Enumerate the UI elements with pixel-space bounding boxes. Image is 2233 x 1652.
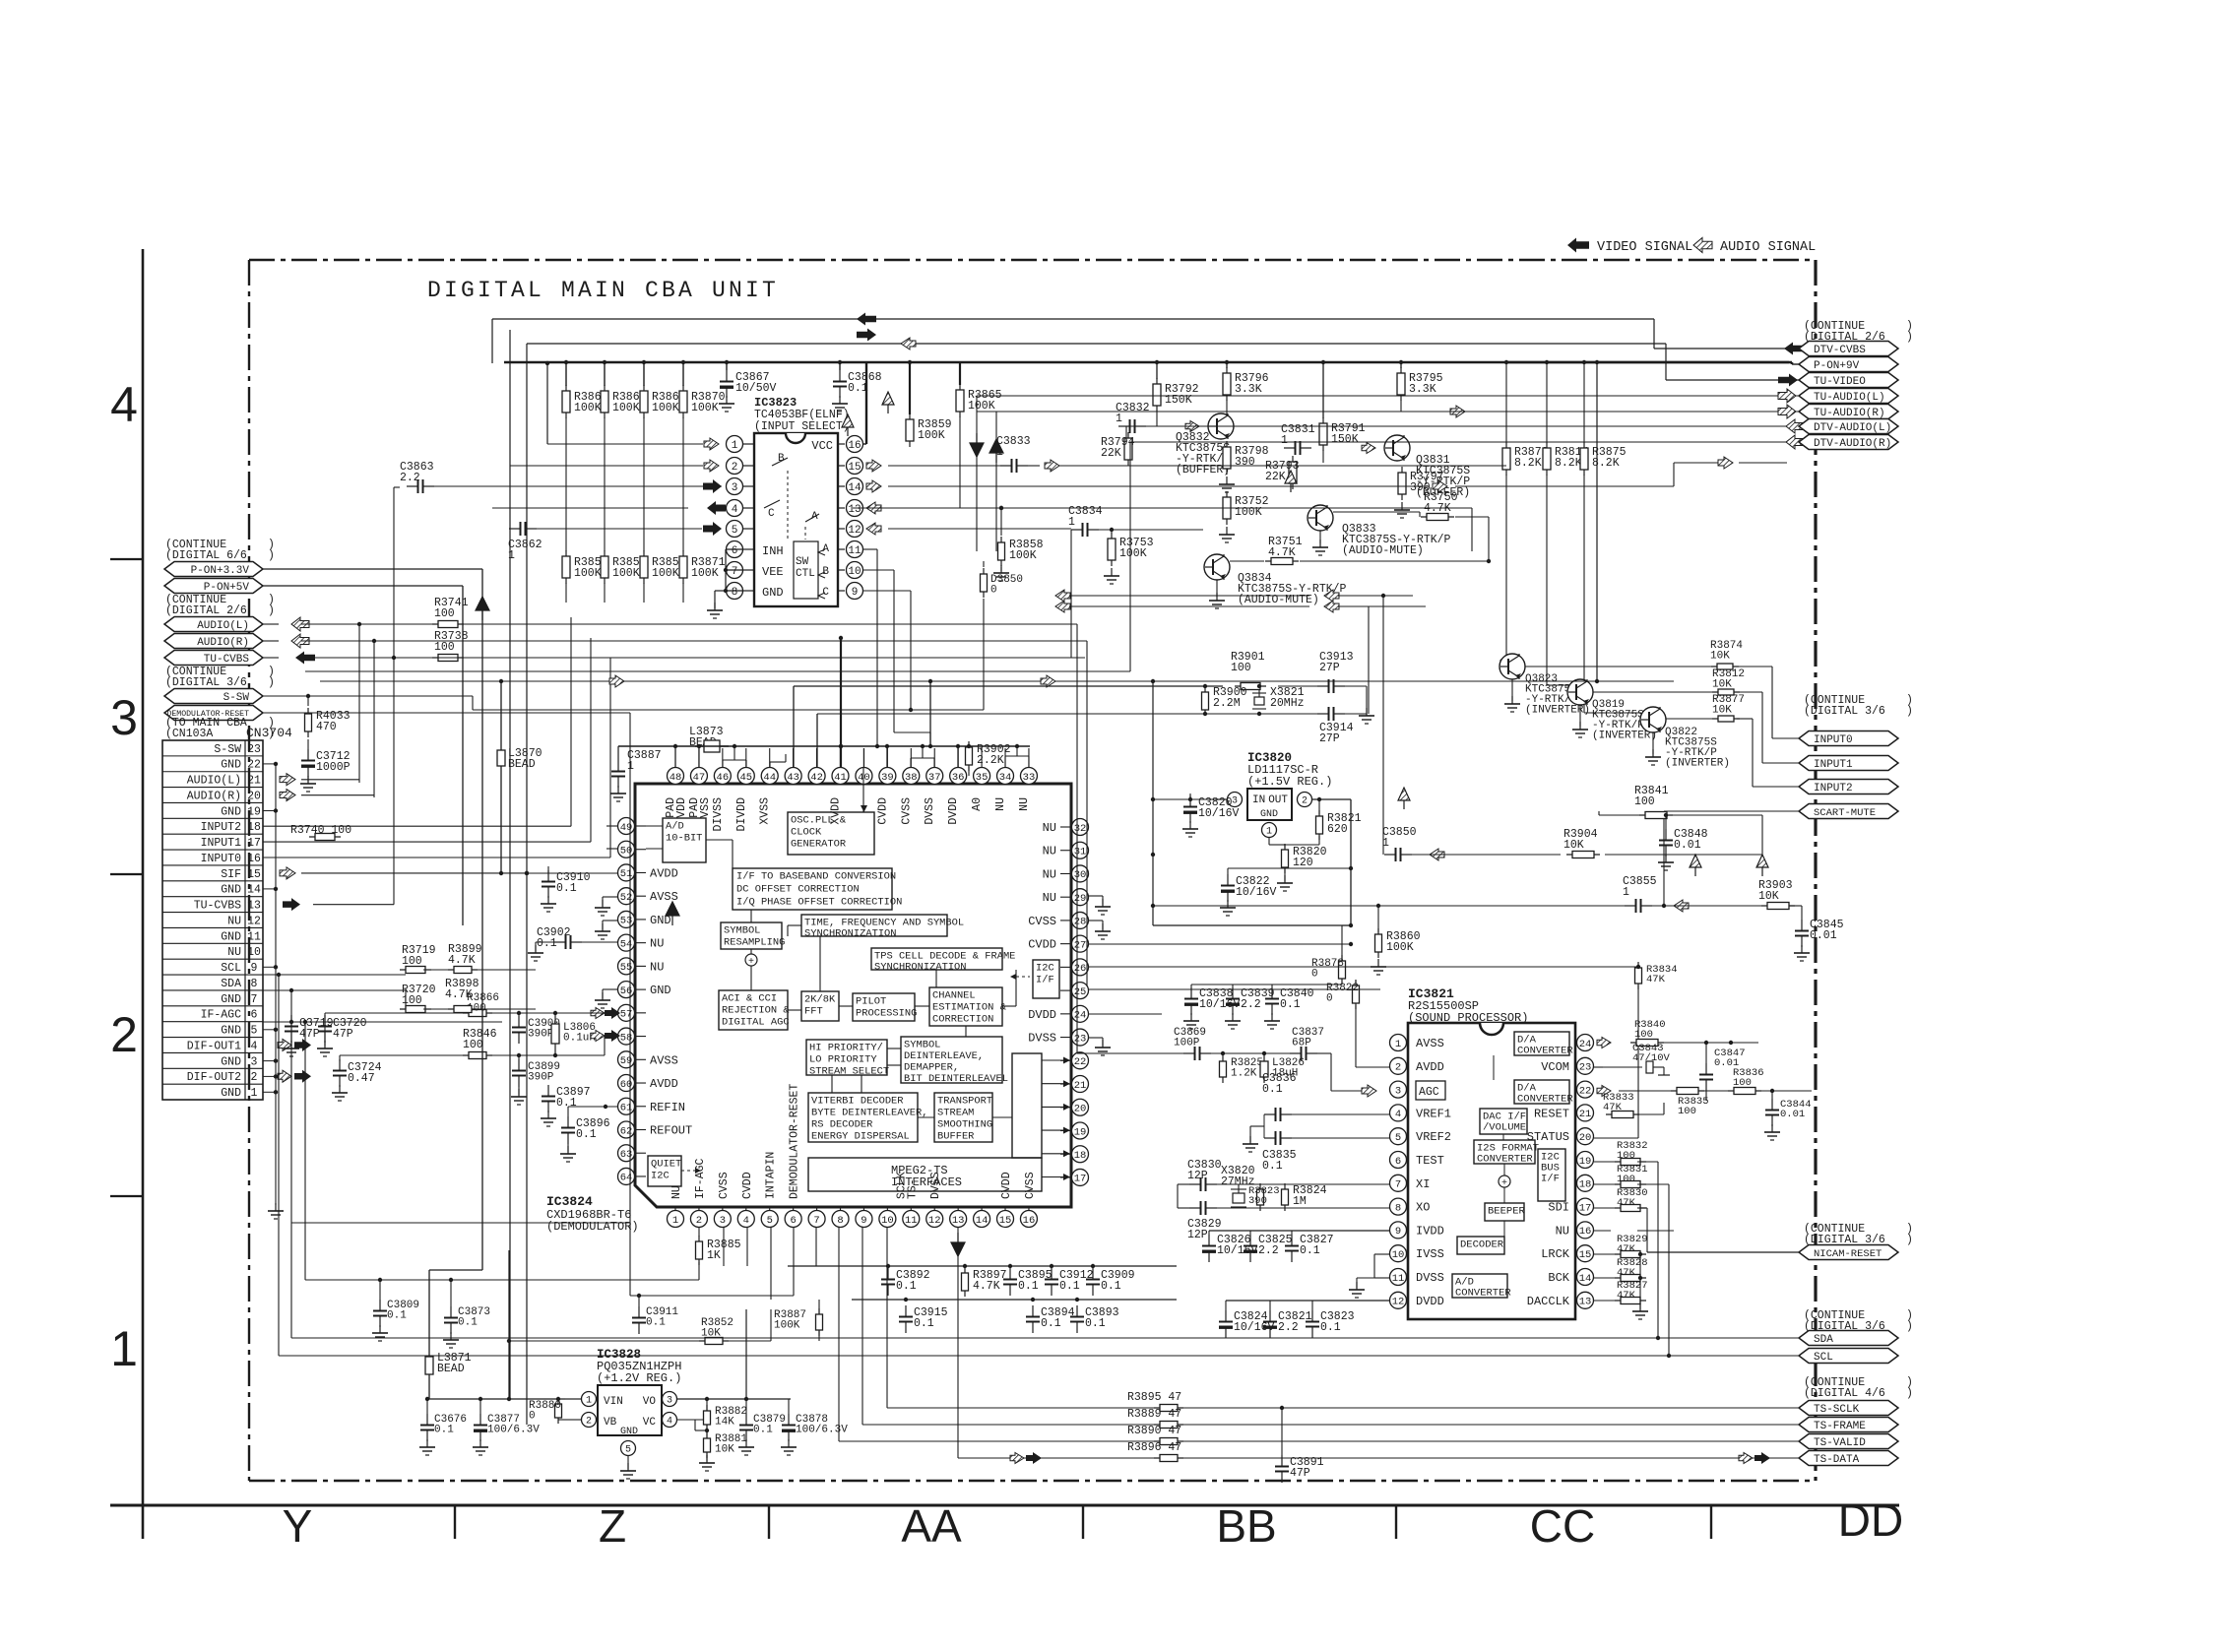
IC3824 ACI CCI block [719, 990, 788, 1030]
svg-text:STREAM SELECT: STREAM SELECT [809, 1065, 889, 1077]
arrow into IC3823 pin3 video [703, 479, 722, 493]
capacitor C3909 0.1 [1092, 1268, 1094, 1280]
svg-text:41: 41 [834, 772, 847, 784]
IC3828 pin 4 [663, 1413, 677, 1428]
svg-text:CVSS: CVSS [1024, 1172, 1037, 1199]
resistor R3822 0 [1355, 980, 1357, 1009]
ground Q3822 [1652, 732, 1654, 754]
IC3821 DAC I/F VOLUME block [1480, 1109, 1527, 1134]
power arrow near IC3823 top [842, 414, 854, 436]
IC3824 pin 21 [1072, 1076, 1089, 1093]
svg-text:/VOLUME: /VOLUME [1483, 1122, 1526, 1134]
wire pin3 4 5 drops [723, 1227, 725, 1266]
svg-text:AUDIO SIGNAL: AUDIO SIGNAL [1720, 240, 1816, 255]
capacitor C3869 100P [1183, 1052, 1195, 1054]
connector CN3704 pin 16 INPUT0 [162, 849, 263, 851]
svg-text:100K: 100K [918, 429, 945, 442]
arrow into IC3823 pin12 [866, 523, 881, 535]
svg-text:NICAM-RESET: NICAM-RESET [1814, 1248, 1882, 1260]
capacitor C3845 0.01 [1801, 920, 1803, 931]
svg-text:100: 100 [434, 607, 455, 620]
svg-text:11: 11 [247, 930, 261, 943]
svg-text:3.3K: 3.3K [1409, 383, 1436, 396]
svg-text:P-ON+3.3V: P-ON+3.3V [191, 565, 250, 577]
resistor R3829 47K [1615, 1253, 1646, 1255]
resistor R3828 47K [1615, 1277, 1646, 1279]
capacitor C3868 0.1 [839, 370, 841, 382]
resistor R3719 100 [400, 969, 431, 971]
IC3821 pin 19 [1577, 1152, 1594, 1169]
resistor R3841 100 [1639, 814, 1673, 816]
IC3824 pin 33 [1020, 768, 1037, 785]
IC3824 pin 26 [1072, 959, 1089, 976]
resistor R3830 47K [1615, 1207, 1646, 1209]
power arrow at pin54 [666, 902, 679, 925]
svg-text:13: 13 [1579, 1297, 1592, 1308]
wire STATUS run [1594, 1137, 1638, 1139]
connector CN3704 pin 13 TU-CVBS [162, 896, 263, 898]
svg-text:A: A [822, 543, 829, 555]
svg-text:PILOT: PILOT [856, 995, 886, 1007]
capacitor C3676 0.1 [426, 1414, 428, 1426]
svg-text:DTV-AUDIO(L): DTV-AUDIO(L) [1814, 422, 1891, 434]
svg-text:10K: 10K [1712, 679, 1732, 691]
svg-text:TRANSPORT: TRANSPORT [937, 1095, 992, 1107]
svg-text:VCOM: VCOM [1541, 1060, 1569, 1074]
svg-text:GND: GND [221, 1087, 241, 1100]
svg-text:): ) [1906, 1387, 1913, 1400]
svg-text:30: 30 [1074, 869, 1087, 881]
svg-text:27: 27 [1074, 939, 1087, 951]
arrow out IC3823 pin4 video [707, 501, 726, 515]
svg-text:(DIGITAL 4/6: (DIGITAL 4/6 [1804, 1387, 1885, 1400]
svg-text:13: 13 [848, 504, 861, 516]
IC3824 pin 7 [808, 1211, 825, 1228]
svg-text:3: 3 [1232, 796, 1238, 807]
svg-text:14K: 14K [715, 1417, 734, 1429]
svg-text:8.2K: 8.2K [1555, 457, 1582, 470]
IC3824 pin 45 [737, 768, 754, 785]
svg-text:3: 3 [667, 1396, 672, 1407]
svg-text:14: 14 [848, 482, 861, 494]
svg-text:13: 13 [247, 900, 261, 913]
wire S-SW run [263, 695, 473, 697]
svg-text:100/6.3V: 100/6.3V [487, 1425, 540, 1436]
connector CN3704 pin 20 AUDIO(R) [162, 787, 263, 789]
svg-text:0.1: 0.1 [537, 937, 557, 950]
svg-text:PROCESSING: PROCESSING [856, 1007, 917, 1019]
IC3820 body [1247, 789, 1292, 820]
IC3824 pin 1 [668, 1211, 684, 1228]
svg-text:100: 100 [1634, 795, 1655, 808]
IC3823 pin 8 [742, 590, 754, 592]
svg-text:1K: 1K [707, 1249, 721, 1262]
svg-text:P-ON+9V: P-ON+9V [1814, 360, 1860, 372]
svg-text:47P: 47P [333, 1028, 353, 1041]
resistor R3840 100 [1630, 1042, 1664, 1044]
svg-text:AVDD: AVDD [650, 866, 678, 880]
svg-text:(DIGITAL 3/6: (DIGITAL 3/6 [165, 676, 247, 689]
resistor R3880 0 [557, 1398, 559, 1424]
svg-text:1: 1 [110, 1321, 138, 1376]
wire top feeder 2 [509, 330, 511, 1399]
svg-text:REJECTION &: REJECTION & [722, 1004, 790, 1016]
capacitor C3833 1 [1000, 465, 1012, 467]
svg-text:100K: 100K [652, 567, 679, 580]
IC3821 summing node [1499, 1175, 1510, 1187]
wire SCL long [279, 1355, 1799, 1357]
IC3821 pin 22 [1577, 1081, 1594, 1098]
svg-text:6: 6 [732, 545, 738, 557]
capacitor C3843 47/10V [1603, 1066, 1642, 1068]
IC3824 pin 40 [856, 768, 872, 785]
svg-text:XI: XI [1416, 1177, 1430, 1191]
wire AUDIO(L) row feeder [301, 779, 359, 781]
svg-text:GND: GND [650, 984, 671, 997]
connector CN3704 pin 8 SDA [162, 974, 263, 976]
svg-text:6: 6 [1395, 1156, 1401, 1168]
svg-text:16: 16 [1023, 1215, 1036, 1227]
wire XVDD thick drop [840, 638, 842, 746]
IC3824 pin 63 [618, 1145, 635, 1162]
svg-text:0: 0 [529, 1411, 536, 1423]
svg-text:R3740 100: R3740 100 [290, 824, 351, 837]
capacitor C3896 0.1 [567, 1116, 569, 1128]
svg-text:INH: INH [762, 544, 784, 558]
svg-text:47P: 47P [299, 1028, 320, 1041]
capacitor C3897 0.1 [547, 1085, 549, 1097]
svg-text:DVSS: DVSS [924, 797, 936, 825]
wire IC3821 right pins 15 14 13 [1594, 1253, 1616, 1255]
capacitor C3892 0.1 [887, 1268, 889, 1280]
svg-text:VDD: VDD [675, 797, 688, 818]
svg-text:RESET: RESET [1534, 1107, 1569, 1120]
svg-text:100K: 100K [612, 402, 640, 414]
wire audio column right of IC3824 [1076, 624, 1078, 1053]
net flag TS-VALID [1799, 1434, 1898, 1449]
capacitor C3820 10/16V [1189, 795, 1191, 807]
IC3824 MPEG2-TS INTERFACES block [808, 1158, 1042, 1191]
connector CN3704 body [162, 740, 263, 1100]
svg-text:3: 3 [720, 1215, 726, 1227]
resistor R3834 47K [1637, 962, 1639, 989]
svg-text:INTAPIN: INTAPIN [765, 1152, 778, 1199]
svg-text:0.1: 0.1 [576, 1128, 597, 1141]
wire VIN rail [427, 1398, 565, 1400]
svg-text:6: 6 [251, 1009, 258, 1022]
legend video signal arrow [1567, 238, 1589, 253]
svg-text:(DEMODULATOR): (DEMODULATOR) [546, 1220, 639, 1234]
capacitor C3914 27P [1317, 713, 1329, 715]
capacitor C3809 0.1 [379, 1300, 381, 1311]
svg-text:15: 15 [999, 1215, 1012, 1227]
wire R3885 pin2 drop [698, 1262, 700, 1280]
wire to arrows audio pair [1055, 590, 1070, 602]
svg-text:DIVSS: DIVSS [712, 797, 725, 832]
capacitor C3832 1 [1118, 425, 1130, 427]
svg-text:SMOOTHING: SMOOTHING [937, 1118, 992, 1130]
IC3821 pin 8 [1390, 1198, 1407, 1215]
IC3821 pin 20 [1577, 1128, 1594, 1145]
wire IC3824 pin26 right [1089, 966, 1638, 968]
resistor R3872 8.2K [1505, 442, 1507, 476]
wire TU-AUDIO(R) feeder [977, 411, 1766, 413]
svg-text:NU: NU [1043, 891, 1056, 905]
capacitor C3822 10/16V [1227, 874, 1229, 886]
svg-text:STREAM: STREAM [937, 1107, 974, 1118]
diode D3850 0 [983, 568, 985, 598]
svg-text:DEMODULATOR-RESET: DEMODULATOR-RESET [789, 1084, 801, 1199]
svg-text:VIDEO SIGNAL: VIDEO SIGNAL [1597, 240, 1692, 255]
bracket pins 34 33 [1005, 755, 1029, 757]
IC3824 pin 32 [1072, 819, 1089, 836]
IC3824 pin 55 [618, 958, 635, 975]
wire DIF-OUT1 [324, 1013, 326, 1046]
svg-text:22: 22 [247, 759, 261, 772]
IC3824 HI LO PRIORITY block [806, 1040, 887, 1075]
svg-text:TU-VIDEO: TU-VIDEO [1814, 376, 1866, 388]
audio arrow at AUDIO(R) [263, 640, 279, 642]
connector CN3704 pin 14 GND [162, 880, 263, 882]
wire TU-AUDIO(L) feeder [977, 395, 1766, 397]
svg-text:26: 26 [1074, 963, 1087, 975]
svg-text:CC: CC [1530, 1500, 1595, 1552]
svg-text:(+1.2V REG.): (+1.2V REG.) [597, 1371, 681, 1385]
svg-text:0.1: 0.1 [458, 1317, 478, 1329]
svg-text:2: 2 [1395, 1062, 1401, 1074]
svg-text:10K: 10K [1758, 890, 1779, 903]
svg-text:NU: NU [227, 946, 241, 959]
IC3823 pin 5 [742, 528, 754, 530]
svg-text:25: 25 [1074, 986, 1087, 998]
svg-text:A/D: A/D [666, 820, 684, 832]
net flag TS-SCLK [1799, 1401, 1898, 1416]
wire to IC3823 pin5 [537, 528, 702, 530]
arrow into IC3823 pin13 [866, 502, 881, 514]
IC3824 pin 5 [761, 1211, 778, 1228]
wire IC3824 pin25 right [1089, 988, 1380, 990]
svg-text:100K: 100K [612, 567, 640, 580]
IC3824 pin 27 [1072, 935, 1089, 952]
arrow out pin24 [1597, 1038, 1611, 1048]
svg-text:SCL: SCL [1814, 1352, 1833, 1364]
svg-text:CONVERTER: CONVERTER [1517, 1046, 1573, 1057]
svg-text:1: 1 [1281, 434, 1288, 447]
svg-text:INPUT0: INPUT0 [201, 853, 242, 865]
svg-text:150K: 150K [1331, 433, 1359, 446]
wire +1.5V rail y940 [1152, 681, 1154, 925]
IC3824 pin 31 [1072, 842, 1089, 858]
board outline dash-dot bottom [249, 1480, 1816, 1482]
net flag S-SW [164, 689, 263, 704]
IC3828 pin 1 [582, 1392, 597, 1407]
IC3824 SYMBOL DEINTERLEAVE block [901, 1037, 1002, 1083]
wire P-ON+5V from flag [263, 585, 463, 587]
resistor R3855 100K [604, 550, 606, 584]
wire INPUT0 from CN3704 [263, 857, 610, 858]
wire SDA from connector [263, 989, 406, 991]
capacitor C3912 0.1 [1051, 1268, 1053, 1280]
resistor R3869 100K [643, 385, 645, 418]
svg-text:21: 21 [247, 775, 261, 788]
svg-text:7: 7 [251, 993, 258, 1006]
resistor R3812 10K [1712, 691, 1740, 693]
wire vertical x759 from above [745, 1309, 747, 1399]
svg-text:2.2: 2.2 [1258, 1244, 1279, 1257]
resistor R3904 10K [1566, 854, 1600, 856]
svg-text:): ) [268, 676, 275, 689]
svg-text:DVDD: DVDD [1416, 1295, 1444, 1308]
svg-text:REFOUT: REFOUT [650, 1123, 692, 1137]
svg-text:100P: 100P [1174, 1038, 1200, 1049]
capacitor C3831 1 [1284, 447, 1296, 449]
svg-text:VSS: VSS [699, 797, 712, 818]
wire IC3823 pin15 out [888, 465, 1000, 467]
IC3821 pin 18 [1577, 1175, 1594, 1191]
capacitor C3887 1 [617, 760, 619, 772]
svg-text:1: 1 [1068, 516, 1075, 529]
net flag DTV-CVBS [1768, 348, 1799, 349]
transistor Q3833 audio mute [1308, 505, 1333, 531]
wire CN3704 ground bus [275, 764, 277, 1205]
svg-text:21: 21 [1579, 1109, 1592, 1120]
svg-text:35: 35 [976, 772, 989, 784]
svg-text:NU: NU [1043, 867, 1056, 881]
svg-text:1M: 1M [1293, 1195, 1307, 1208]
svg-text:31: 31 [1074, 847, 1087, 858]
IC3821 pin 7 [1390, 1175, 1407, 1191]
svg-text:8: 8 [251, 978, 258, 990]
video arrow at CN3704 pin13 TU-CVBS [283, 898, 300, 911]
svg-text:(DIGITAL 6/6: (DIGITAL 6/6 [165, 549, 247, 562]
capacitor C3830 12P [1189, 1183, 1201, 1185]
net flag TU-VIDEO [1770, 379, 1799, 381]
svg-text:24: 24 [1579, 1039, 1592, 1050]
svg-text:OSC.PLL &: OSC.PLL & [791, 814, 847, 826]
wire IC3824 pin27 CVDD right [1089, 943, 1351, 945]
svg-text:2: 2 [732, 462, 738, 474]
wire SDA drop left [290, 990, 292, 1338]
IC3824 pin 19 [1072, 1122, 1089, 1139]
wire INPUT2 [1666, 718, 1715, 720]
connector CN3704 pin 6 IF-AGC [162, 1005, 263, 1007]
capacitor C3836 0.1 [1264, 1113, 1276, 1115]
resistor R3890 47 [1154, 1440, 1183, 1442]
IC3824 pin 9 [856, 1211, 872, 1228]
IC3824 pin 53 [618, 911, 635, 927]
svg-text:8.2K: 8.2K [1514, 457, 1542, 470]
svg-text:BIT DEINTERLEAVEL: BIT DEINTERLEAVEL [904, 1073, 1008, 1085]
connector CN3704 pin 2 DIF-OUT2 [162, 1067, 263, 1069]
wire pin7 8 drop [815, 1227, 817, 1266]
capacitor C3720 47P [324, 1015, 326, 1027]
IC3821 pin 24 [1577, 1035, 1594, 1051]
svg-text:0.1: 0.1 [556, 882, 577, 895]
wire top feeder 3 [526, 344, 528, 1425]
svg-text:Y: Y [283, 1500, 313, 1552]
svg-text:2: 2 [110, 1007, 138, 1062]
IC3823 pin 9 [838, 590, 845, 592]
svg-text:XVSS: XVSS [759, 797, 772, 825]
IC3823 pin 6 [742, 548, 754, 550]
wire IC3823 pin10 [863, 569, 894, 571]
svg-text:100K: 100K [574, 567, 602, 580]
svg-text:9: 9 [251, 962, 258, 975]
svg-text:GND: GND [221, 884, 241, 897]
wire bus 1242 [291, 1222, 630, 1224]
capacitor C3863 2.2 [407, 485, 418, 487]
wire long mid 677 [305, 670, 1130, 672]
resistor R3874 10K [1711, 666, 1739, 667]
svg-text:27P: 27P [1319, 732, 1340, 745]
resistor R3866 100 [463, 1012, 492, 1014]
svg-text:DEMAPPER,: DEMAPPER, [904, 1061, 959, 1073]
svg-text:0: 0 [1326, 993, 1333, 1005]
wire C3902 to pin54 [582, 941, 617, 943]
svg-text:100K: 100K [691, 567, 719, 580]
svg-text:SDA: SDA [221, 978, 241, 990]
wire DVDD rail [1226, 1300, 1390, 1302]
svg-text:DVDD: DVDD [947, 797, 960, 825]
resistor R3867 100K [565, 385, 567, 418]
svg-text:CVDD: CVDD [876, 797, 889, 825]
svg-text:NU: NU [1556, 1224, 1569, 1238]
svg-text:100/6.3V: 100/6.3V [796, 1425, 848, 1436]
capacitor C3911 0.1 [638, 1306, 640, 1318]
resistor R3796 3.3K [1226, 367, 1228, 401]
capacitor C3891 47P [1281, 1455, 1283, 1467]
svg-text:OUT: OUT [1268, 794, 1288, 806]
IC3824 pin 35 [974, 768, 990, 785]
IC3821 pin 17 [1577, 1198, 1594, 1215]
svg-text:4.7K: 4.7K [445, 988, 473, 1001]
resistor R3900 2.2M [1204, 686, 1206, 716]
svg-text:47K: 47K [1617, 1267, 1636, 1279]
arrows at CN3704 pin4 DIF-OUT1 [278, 1039, 291, 1050]
svg-text:I2C: I2C [651, 1170, 670, 1181]
svg-text:10K: 10K [715, 1444, 734, 1456]
IC3824 pin 49 [618, 818, 635, 835]
wire SDA long [291, 1337, 1799, 1339]
IC3824 pin 56 [618, 982, 635, 998]
svg-text:29: 29 [1074, 893, 1087, 905]
svg-text:1: 1 [672, 1215, 678, 1227]
net flag INPUT2 [1799, 780, 1898, 794]
transistor Q3832 buffer [1208, 413, 1234, 439]
svg-text:(AUDIO-MUTE): (AUDIO-MUTE) [1342, 544, 1424, 557]
svg-text:47/10V: 47/10V [1632, 1052, 1671, 1064]
crystal X3820 27MHz [1238, 1184, 1240, 1193]
IC3824 TPS CELL DECODE block [871, 948, 1002, 970]
svg-text:1: 1 [586, 1396, 592, 1407]
svg-text:CTL: CTL [796, 568, 815, 580]
power arrow IC3824 bottom [951, 1233, 965, 1256]
wire IVDD rail [1209, 1230, 1390, 1232]
connector CN3704 pin 7 GND [162, 989, 263, 991]
svg-text:DVDD: DVDD [1028, 1008, 1056, 1022]
svg-text:TU-AUDIO(L): TU-AUDIO(L) [1814, 392, 1885, 404]
IC3821 pin 14 [1577, 1269, 1594, 1286]
wire TS-SCLK [886, 1227, 888, 1408]
IC3821 internal wires [1503, 1187, 1505, 1203]
capacitor C3847 0.01 [1705, 1063, 1707, 1075]
svg-text:1: 1 [251, 1087, 258, 1100]
svg-text:FFT: FFT [804, 1005, 823, 1017]
svg-text:12: 12 [928, 1215, 941, 1227]
IC3824 pin 42 [808, 768, 825, 785]
svg-text:0.1: 0.1 [556, 1097, 577, 1110]
svg-text:GND: GND [221, 930, 241, 943]
